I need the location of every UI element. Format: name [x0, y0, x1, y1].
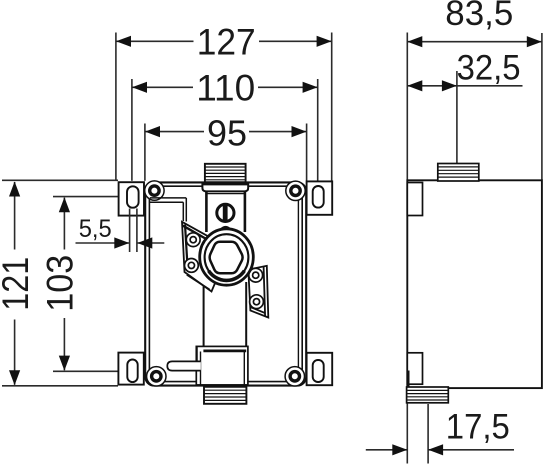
- left bracket plate: [182, 222, 226, 292]
- dimension line 121: [14, 182, 16, 385]
- extension line 121 bottom: [2, 385, 118, 387]
- bottom block: [196, 346, 248, 385]
- svg-text:32,5: 32,5: [457, 48, 521, 87]
- inner box wall: [149, 186, 302, 381]
- arrowhead 5,5 left: [114, 237, 129, 248]
- dimension line 5,5 left tail: [76, 242, 130, 244]
- mounting tab bottom-right: [307, 353, 333, 385]
- screw top-left: [150, 186, 159, 195]
- inner right rail: [297, 200, 299, 374]
- svg-text:127: 127: [197, 22, 256, 63]
- arrowhead 32,5 right: [442, 80, 457, 91]
- arrowhead 83,5 left: [407, 36, 422, 47]
- extension line 5,5 right: [136, 209, 138, 253]
- outer box front view: [145, 182, 306, 385]
- valve inner circle bottom crescent: [209, 271, 245, 281]
- extension line 95 right: [306, 124, 308, 181]
- arrowhead 17,5 right: [428, 444, 443, 455]
- valve hexagon: [210, 242, 243, 274]
- dimension line 83,5: [407, 41, 542, 43]
- arrowhead 110 right: [303, 82, 318, 93]
- valve body outer circle: [200, 229, 254, 285]
- svg-text:95: 95: [207, 113, 247, 154]
- pipe upper tube: [206, 191, 245, 232]
- screw boss bottom-right: [285, 367, 304, 386]
- dimension line 5,5 right tail: [137, 242, 164, 244]
- arrowhead 83,5 right: [527, 36, 542, 47]
- svg-text:83,5: 83,5: [445, 0, 513, 33]
- extension line 5,5 left: [129, 209, 131, 253]
- extension line 103 top: [53, 196, 128, 198]
- arrowhead 103 top: [59, 197, 70, 212]
- adjuster screw with slot: [217, 204, 234, 221]
- block inner sides: [201, 352, 245, 385]
- screw top-right: [291, 186, 300, 195]
- right bracket ear bottom: [250, 295, 264, 309]
- dimension 5,5 overlay: [76, 209, 165, 253]
- side edge thick segment: [407, 371, 410, 388]
- arrowhead 32,5 left: [407, 80, 422, 91]
- top threaded connector front: [205, 164, 246, 182]
- extension line 32,5 right: [456, 71, 458, 163]
- svg-text:5,5: 5,5: [79, 215, 112, 243]
- extension line 95 left: [144, 124, 146, 181]
- screw bottom-right: [290, 372, 299, 381]
- dimension line 17,5 right tail: [428, 449, 514, 451]
- left bracket ear bottom: [185, 259, 199, 273]
- pipe flange top: [202, 184, 248, 191]
- dimension line 103: [63, 198, 65, 371]
- arrowhead 103 bottom: [59, 356, 70, 371]
- dimension line 95: [145, 131, 307, 133]
- side box: [407, 180, 542, 388]
- arrowhead 110 left: [132, 82, 147, 93]
- side tab bottom: [407, 353, 422, 384]
- right bracket ear top: [249, 268, 263, 282]
- dimension line 110: [132, 86, 318, 88]
- extension line 127 right: [331, 33, 333, 181]
- arrowhead 121 bottom: [9, 370, 20, 385]
- svg-text:103: 103: [39, 255, 81, 312]
- dimension line 32,5: [407, 85, 522, 87]
- side dims extension: left edge line: [406, 33, 408, 464]
- step bar left: [167, 361, 201, 370]
- arrowhead 127 left: [116, 36, 131, 47]
- arrowhead 5,5 right: [137, 237, 152, 248]
- arrowhead 95 left: [145, 126, 160, 137]
- valve body inner circle: [205, 234, 249, 280]
- extension line 83,5 right: [541, 33, 543, 180]
- svg-text:110: 110: [196, 68, 255, 109]
- extension line 110 right: [317, 79, 319, 181]
- svg-text:17,5: 17,5: [446, 408, 510, 447]
- screw bottom-left: [152, 372, 161, 381]
- screw boss top-right: [286, 181, 305, 200]
- side top threaded connector: [438, 164, 479, 182]
- dimension line 17,5 left tail: [366, 449, 408, 451]
- extension line 103 bottom: [53, 370, 128, 372]
- extension line 17,5 right: [427, 404, 429, 464]
- side bottom threaded connector: [407, 387, 449, 403]
- extension line 110 left: [131, 79, 133, 181]
- extension line 127 left: [115, 33, 117, 181]
- right bracket plate: [248, 266, 268, 318]
- arrowhead 127 right: [317, 36, 332, 47]
- screw boss bottom-left: [147, 367, 166, 386]
- dimension line 127: [116, 40, 332, 42]
- mounting tab top-right: [307, 181, 333, 214]
- valve top nub: [221, 227, 230, 229]
- extension line 121 top: [2, 179, 118, 181]
- mounting tab top-left: [119, 182, 144, 215]
- mounting tab bottom-left: [118, 353, 143, 385]
- side tab top: [407, 183, 422, 216]
- step vertical: [196, 346, 198, 361]
- shelf rail top-left: [150, 198, 187, 222]
- arrowhead 95 right: [292, 126, 307, 137]
- arrowhead 121 top: [9, 182, 20, 197]
- svg-text:121: 121: [0, 257, 36, 311]
- left bracket ear top: [186, 233, 200, 247]
- block dark band: [203, 349, 246, 352]
- bottom threaded connector front: [204, 387, 246, 404]
- screw boss top-left: [145, 181, 164, 200]
- arrowhead 17,5 left: [392, 444, 407, 455]
- pipe below valve: [204, 282, 247, 346]
